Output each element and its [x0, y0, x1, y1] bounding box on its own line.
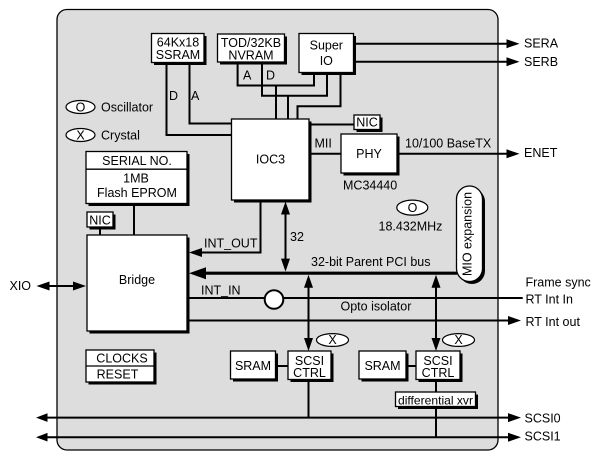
svg-text:Super: Super: [310, 38, 343, 52]
svg-text:Bridge: Bridge: [119, 273, 155, 287]
svg-text:CTRL: CTRL: [422, 366, 455, 380]
svg-text:D: D: [169, 89, 178, 103]
svg-text:X: X: [328, 333, 337, 347]
svg-text:Opto isolator: Opto isolator: [341, 300, 412, 314]
svg-text:10/100 BaseTX: 10/100 BaseTX: [405, 137, 492, 151]
svg-text:RT Int out: RT Int out: [526, 315, 581, 329]
svg-text:MII: MII: [315, 137, 332, 151]
svg-text:INT_OUT: INT_OUT: [204, 237, 258, 251]
svg-text:SCSI0: SCSI0: [525, 412, 561, 426]
svg-text:X: X: [454, 333, 463, 347]
svg-text:SCSI1: SCSI1: [525, 430, 561, 444]
svg-text:SRAM: SRAM: [235, 359, 271, 373]
svg-text:XIO: XIO: [10, 279, 32, 293]
svg-text:1MB: 1MB: [123, 172, 149, 186]
svg-text:MC34440: MC34440: [343, 179, 397, 193]
svg-text:NIC: NIC: [89, 214, 111, 228]
svg-text:IO: IO: [320, 54, 333, 68]
svg-text:D: D: [266, 69, 275, 83]
svg-text:32-bit Parent PCI bus: 32-bit Parent PCI bus: [311, 255, 431, 269]
svg-text:Oscillator: Oscillator: [101, 101, 153, 115]
svg-text:NVRAM: NVRAM: [228, 49, 273, 63]
svg-text:Crystal: Crystal: [101, 129, 140, 143]
svg-text:RESET: RESET: [97, 367, 139, 381]
svg-text:18.432MHz: 18.432MHz: [379, 219, 443, 233]
svg-text:differential xvr: differential xvr: [398, 393, 473, 407]
svg-text:SSRAM: SSRAM: [156, 48, 200, 62]
svg-text:Frame sync: Frame sync: [526, 276, 591, 290]
svg-text:NIC: NIC: [356, 116, 378, 130]
svg-text:CLOCKS: CLOCKS: [96, 352, 147, 366]
svg-text:SERB: SERB: [524, 55, 558, 69]
svg-text:X: X: [76, 129, 85, 143]
svg-text:O: O: [408, 201, 418, 215]
svg-text:CTRL: CTRL: [293, 366, 326, 380]
svg-text:ENET: ENET: [524, 146, 558, 160]
svg-text:Flash EPROM: Flash EPROM: [97, 186, 177, 200]
svg-text:SRAM: SRAM: [364, 359, 400, 373]
svg-text:INT_IN: INT_IN: [201, 284, 241, 298]
svg-text:PHY: PHY: [356, 147, 382, 161]
svg-text:RT Int In: RT Int In: [526, 293, 574, 307]
svg-text:A: A: [243, 69, 252, 83]
svg-text:O: O: [76, 101, 86, 115]
svg-text:MIO expansion: MIO expansion: [461, 192, 475, 276]
svg-text:A: A: [191, 89, 200, 103]
svg-text:SERIAL NO.: SERIAL NO.: [102, 154, 172, 168]
svg-text:32: 32: [290, 230, 304, 244]
svg-text:IOC3: IOC3: [256, 153, 285, 167]
svg-text:SERA: SERA: [524, 37, 559, 51]
